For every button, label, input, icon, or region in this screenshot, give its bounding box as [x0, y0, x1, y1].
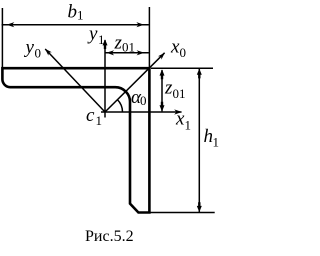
svg-text:x: x	[170, 37, 180, 58]
svg-text:1: 1	[98, 32, 105, 47]
svg-text:y: y	[24, 37, 35, 58]
svg-text:0: 0	[35, 46, 42, 61]
svg-text:x: x	[175, 109, 185, 130]
svg-text:0: 0	[140, 93, 147, 108]
svg-text:y: y	[87, 24, 98, 45]
svg-text:1: 1	[96, 113, 103, 128]
svg-text:01: 01	[173, 86, 186, 101]
svg-text:Рис.5.2: Рис.5.2	[85, 228, 134, 245]
svg-text:c: c	[86, 105, 95, 126]
svg-text:1: 1	[185, 118, 192, 133]
svg-text:1: 1	[213, 135, 220, 150]
svg-text:0: 0	[180, 45, 187, 60]
svg-text:b: b	[68, 2, 78, 23]
svg-text:1: 1	[77, 8, 84, 23]
svg-text:01: 01	[122, 40, 135, 55]
